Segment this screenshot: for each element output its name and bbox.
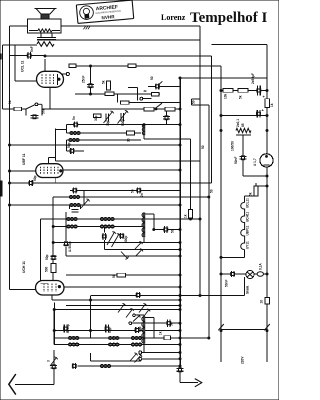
svg-text:50nF: 50nF xyxy=(234,157,238,164)
svg-text:UCL11: UCL11 xyxy=(246,198,250,208)
svg-text:50p: 50p xyxy=(67,142,71,148)
svg-text:50: 50 xyxy=(201,145,205,149)
svg-text:50: 50 xyxy=(192,100,196,104)
svg-text:50: 50 xyxy=(210,189,214,193)
svg-text:5n: 5n xyxy=(131,189,135,193)
svg-text:Tempelhof I: Tempelhof I xyxy=(190,10,268,26)
svg-text:100/50: 100/50 xyxy=(231,141,235,151)
svg-text:10k: 10k xyxy=(224,93,228,99)
svg-text:30p: 30p xyxy=(106,120,110,126)
svg-text:3: 3 xyxy=(47,360,51,362)
svg-text:3k: 3k xyxy=(144,89,148,93)
svg-text:50p: 50p xyxy=(33,175,37,181)
svg-text:Lorenz: Lorenz xyxy=(161,13,186,22)
svg-text:2x50µF: 2x50µF xyxy=(251,73,255,84)
svg-text:1k: 1k xyxy=(270,103,274,107)
svg-text:U 1,7: U 1,7 xyxy=(253,158,257,166)
svg-text:50nF: 50nF xyxy=(225,280,229,287)
svg-text:U-500p: U-500p xyxy=(68,241,72,252)
svg-text:UBF11: UBF11 xyxy=(246,225,250,235)
svg-text:220V: 220V xyxy=(241,356,245,364)
svg-text:2x0,1: 2x0,1 xyxy=(236,119,240,127)
svg-text:500p: 500p xyxy=(121,119,125,126)
svg-text:UCH11: UCH11 xyxy=(246,211,250,222)
svg-text:50p: 50p xyxy=(45,254,49,260)
svg-text:50: 50 xyxy=(150,76,154,80)
svg-text:UCL 11: UCL 11 xyxy=(21,60,25,72)
svg-text:5n: 5n xyxy=(72,116,76,120)
svg-text:5k: 5k xyxy=(102,80,106,84)
svg-text:30: 30 xyxy=(127,138,131,142)
svg-text:5k: 5k xyxy=(239,95,243,99)
svg-text:1k: 1k xyxy=(8,100,12,104)
svg-text:2n: 2n xyxy=(140,193,144,197)
svg-text:5nF: 5nF xyxy=(42,108,46,114)
svg-text:5k: 5k xyxy=(249,192,253,196)
svg-text:10: 10 xyxy=(260,300,264,304)
svg-text:UBF 11: UBF 11 xyxy=(22,153,26,165)
svg-text:500p: 500p xyxy=(124,236,128,243)
svg-text:50: 50 xyxy=(112,274,116,278)
svg-text:50p: 50p xyxy=(138,326,142,332)
svg-text:UY11: UY11 xyxy=(246,241,250,249)
svg-text:U-50p: U-50p xyxy=(66,324,70,333)
svg-text:500: 500 xyxy=(45,266,49,272)
svg-text:25nF: 25nF xyxy=(81,76,85,83)
svg-text:0,1A: 0,1A xyxy=(259,263,263,270)
svg-text:1k: 1k xyxy=(184,214,188,218)
svg-text:50p: 50p xyxy=(108,327,112,333)
svg-text:5n: 5n xyxy=(170,322,174,326)
svg-text:Skala: Skala xyxy=(246,285,250,294)
svg-text:1k: 1k xyxy=(159,331,163,335)
svg-text:UCH 11: UCH 11 xyxy=(22,261,26,273)
svg-text:65: 65 xyxy=(241,123,245,127)
svg-text:50: 50 xyxy=(171,229,175,233)
svg-text:30p: 30p xyxy=(94,115,98,121)
svg-text:5nF: 5nF xyxy=(30,46,34,52)
